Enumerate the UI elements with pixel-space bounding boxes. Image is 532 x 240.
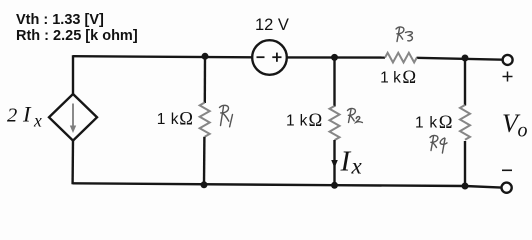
Ix arrow (black, downward) (331, 141, 338, 168)
wire R2 branch lower (333, 140, 335, 185)
resistor R2 zigzag (330, 106, 340, 140)
wire top right (R3 to + terminal) (417, 58, 503, 60)
R1 handwritten label (220, 105, 233, 126)
svg-text:x: x (33, 111, 42, 131)
R2 handwritten label (348, 108, 363, 122)
wire R1 branch lower (203, 137, 206, 185)
voltage source plus (272, 53, 281, 62)
dependent current source diamond (49, 94, 97, 141)
junction node R4 bottom (462, 183, 469, 190)
svg-text:Vth : 1.33 [V]: Vth : 1.33 [V] (16, 12, 104, 28)
svg-text:2: 2 (7, 105, 17, 127)
svg-text:Rth : 2.25 [k ohm]: Rth : 2.25 [k ohm] (16, 28, 138, 44)
R3 handwritten label (396, 27, 412, 42)
svg-text:I: I (340, 146, 352, 178)
svg-text:x: x (351, 154, 363, 179)
plus sign (503, 72, 513, 82)
junction node R4 top (462, 55, 469, 62)
resistor R1 zigzag (200, 103, 210, 137)
wire bottom horizontal (73, 183, 502, 187)
minus sign (502, 169, 512, 171)
wire left branch lower (71, 140, 74, 185)
svg-text:o: o (518, 120, 528, 142)
voltage source circle (252, 40, 287, 75)
wire R4 branch lower (464, 141, 466, 186)
resistor R3 zigzag (horizontal) (385, 53, 417, 63)
R4 handwritten label (430, 135, 447, 153)
junction node R1 bottom (201, 181, 208, 188)
wire R2 branch upper (333, 57, 335, 106)
svg-text:1kΩ: 1kΩ (380, 68, 416, 88)
svg-text:1kΩ: 1kΩ (157, 110, 193, 130)
wire R4 branch upper (464, 58, 466, 106)
wire R1 branch upper (204, 56, 207, 103)
junction node R2 top (331, 54, 338, 61)
svg-text:1kΩ: 1kΩ (286, 111, 322, 131)
wire top-left horizontal (73, 56, 252, 57)
output terminal - (open circle) (502, 183, 512, 193)
current source arrow (gray, downward) (70, 104, 76, 134)
voltage source minus (257, 56, 265, 58)
wire left branch upper (72, 55, 74, 95)
wire top middle (source to R3) (287, 56, 385, 59)
svg-text:1kΩ: 1kΩ (415, 113, 452, 133)
resistor R4 zigzag (460, 105, 470, 140)
svg-text:12 V: 12 V (255, 16, 289, 34)
junction node R2 bottom (331, 182, 338, 189)
junction node R1 top (202, 53, 209, 60)
output terminal + (open circle) (503, 55, 513, 65)
